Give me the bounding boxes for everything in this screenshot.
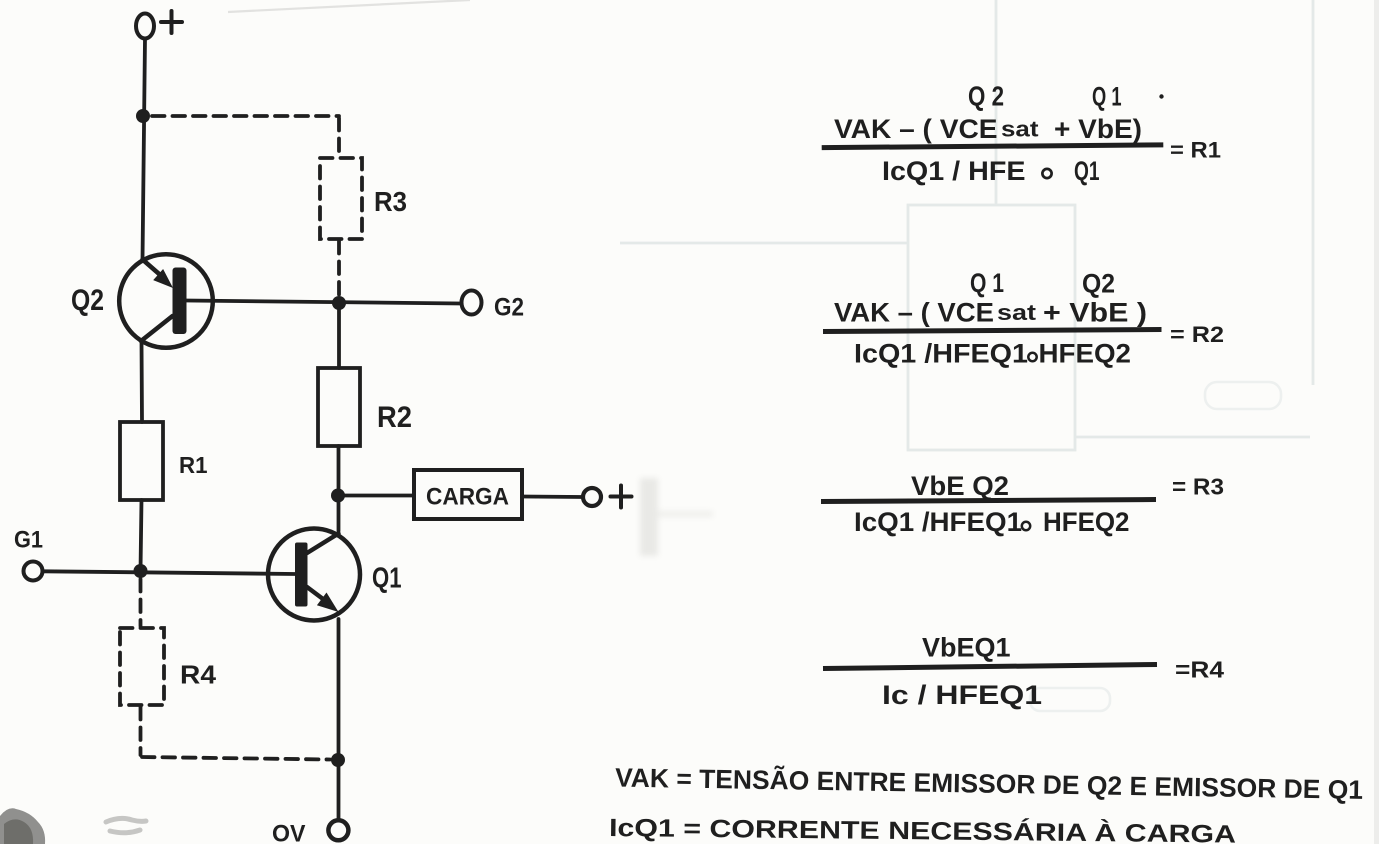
svg-text:+ VbE): + VbE): [1054, 114, 1142, 144]
svg-text:VAK – ( VCE: VAK – ( VCE: [834, 114, 998, 144]
svg-text:IcQ1 /HFEQ1: IcQ1 /HFEQ1: [854, 339, 1028, 369]
svg-text:Q1: Q1: [1074, 156, 1100, 186]
svg-text:sat: sat: [1001, 117, 1039, 142]
svg-text:= R1: = R1: [1170, 138, 1221, 163]
svg-text:Q 2: Q 2: [968, 81, 1004, 112]
svg-text:IcQ1 / HFE: IcQ1 / HFE: [882, 156, 1026, 186]
svg-text:Q 1: Q 1: [1092, 82, 1122, 112]
svg-text:VbE Q2: VbE Q2: [911, 471, 1009, 501]
svg-text:+ VbE ): + VbE ): [1043, 298, 1147, 328]
svg-text:G2: G2: [494, 294, 524, 322]
svg-text:Q1: Q1: [372, 563, 402, 595]
svg-text:HFEQ2: HFEQ2: [1043, 507, 1130, 537]
svg-text:G1: G1: [14, 527, 43, 554]
svg-text:CARGA: CARGA: [426, 484, 509, 511]
svg-text:IcQ1 /HFEQ1: IcQ1 /HFEQ1: [854, 507, 1022, 537]
svg-text:sat: sat: [997, 300, 1037, 325]
svg-text:R2: R2: [377, 401, 412, 434]
svg-text:R4: R4: [180, 660, 217, 690]
svg-text:= R3: = R3: [1172, 474, 1224, 500]
svg-text:= R2: = R2: [1170, 322, 1224, 347]
svg-text:R3: R3: [374, 186, 407, 217]
svg-text:Ic / HFEQ1: Ic / HFEQ1: [882, 680, 1042, 710]
svg-text:OV: OV: [272, 821, 306, 844]
svg-text:Q2: Q2: [1082, 269, 1115, 299]
svg-text:HFEQ2: HFEQ2: [1039, 339, 1132, 369]
svg-text:Q2: Q2: [71, 284, 104, 317]
svg-text:VbEQ1: VbEQ1: [922, 633, 1011, 663]
svg-text:VAK – ( VCE: VAK – ( VCE: [834, 298, 994, 328]
svg-text:Q 1: Q 1: [970, 268, 1004, 298]
svg-text:R1: R1: [179, 452, 208, 478]
svg-text:=R4: =R4: [1175, 657, 1224, 683]
